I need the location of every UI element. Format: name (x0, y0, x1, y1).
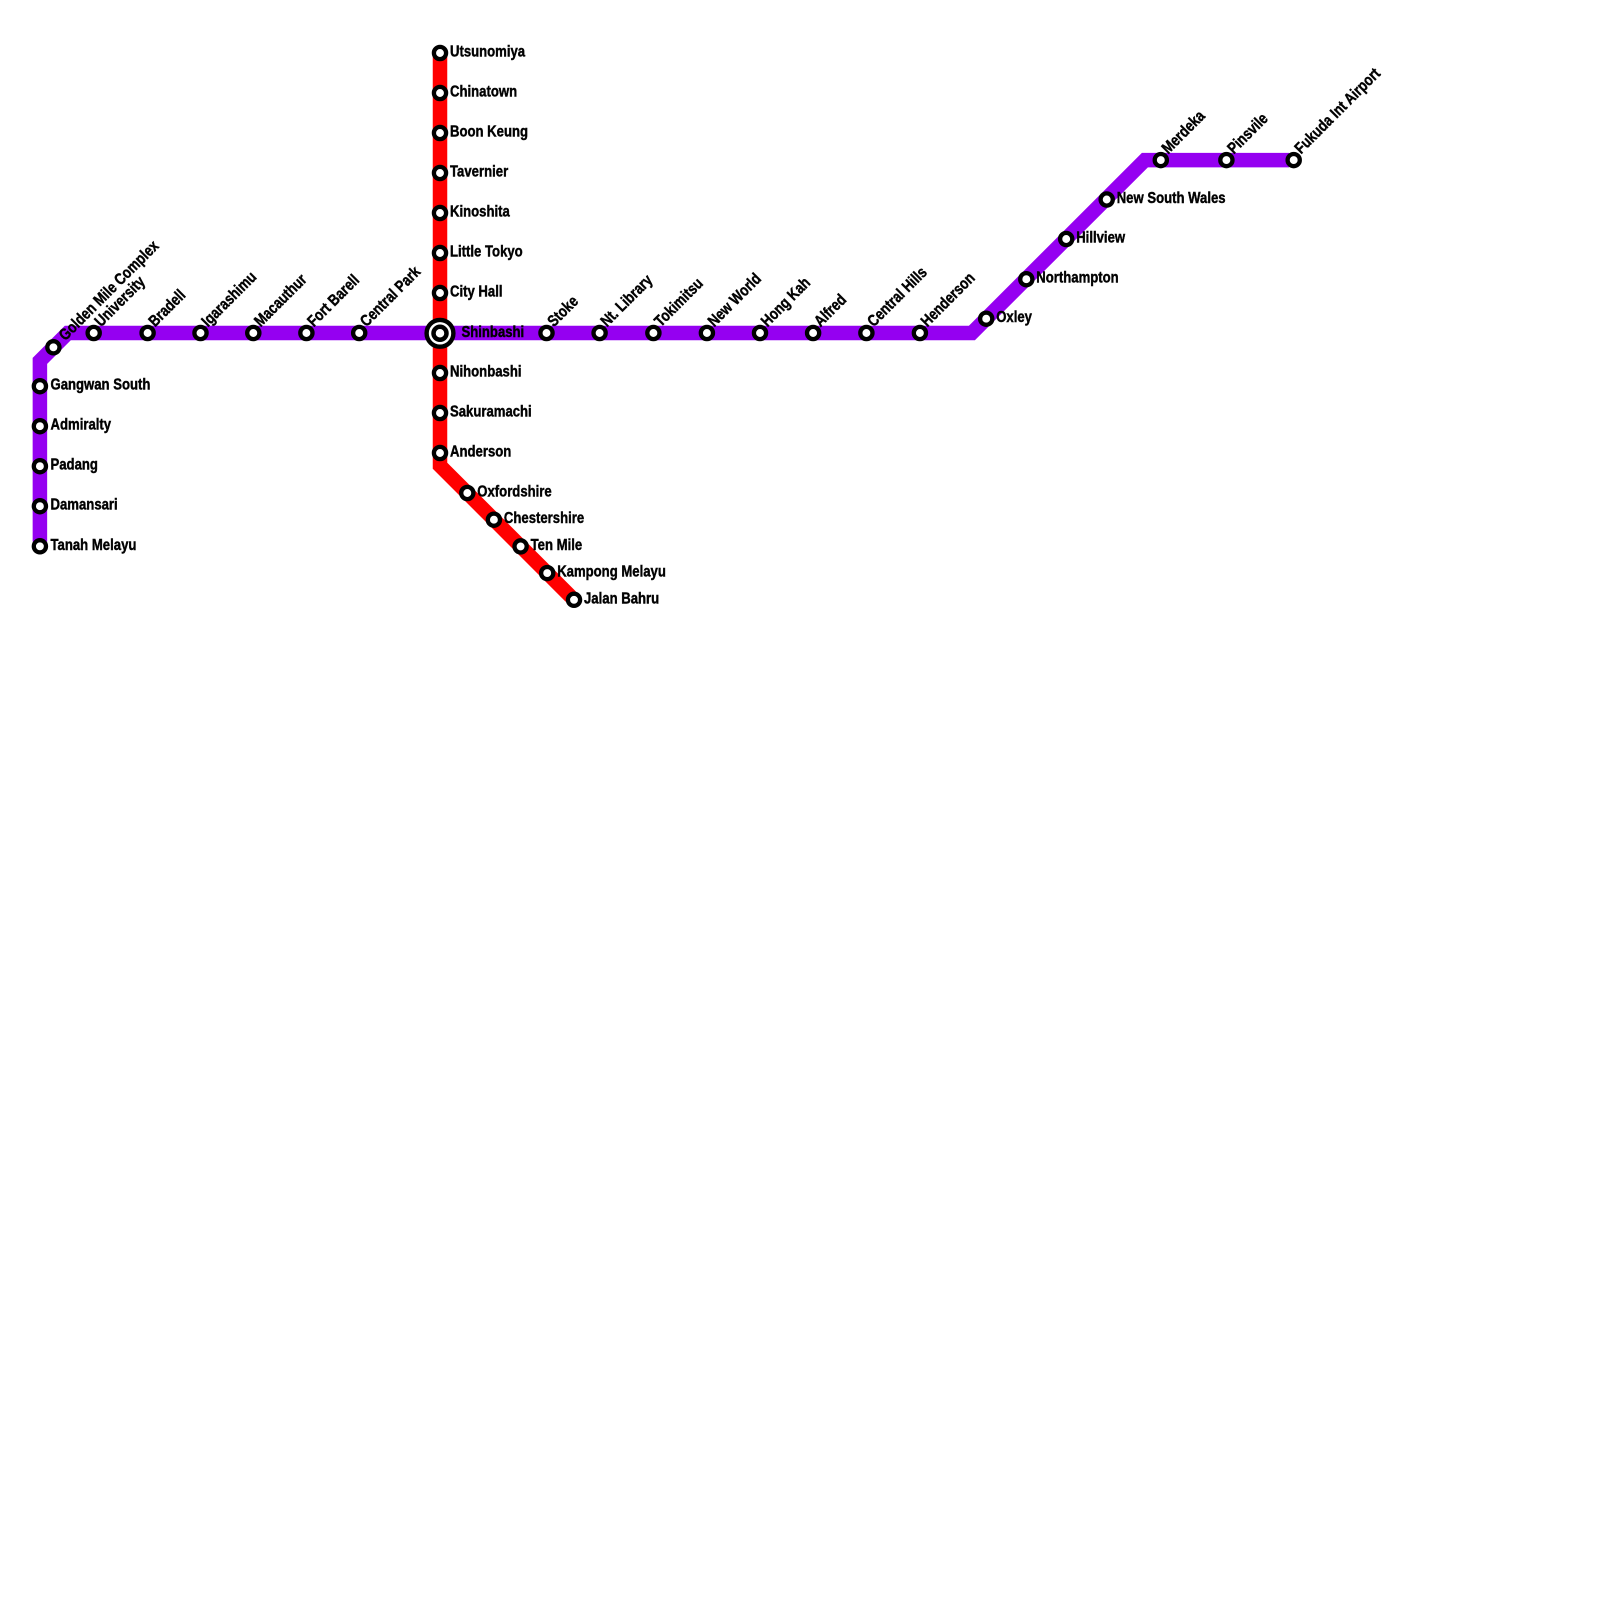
station Hillview (1060, 233, 1072, 245)
svg-text:Oxfordshire: Oxfordshire (477, 484, 551, 501)
svg-text:Anderson: Anderson (450, 444, 511, 461)
station Anderson (434, 447, 446, 459)
svg-text:Utsunomiya: Utsunomiya (450, 44, 525, 61)
svg-text:Hillview: Hillview (1076, 230, 1125, 247)
station Sakuramachi (434, 407, 446, 419)
station Henderson (914, 327, 926, 339)
red line (440, 53, 571, 597)
svg-text:Shinbashi: Shinbashi (462, 324, 525, 341)
station Kinoshita (434, 207, 446, 219)
station Gangwan South (34, 380, 46, 392)
svg-text:Chestershire: Chestershire (504, 510, 584, 527)
svg-text:Boon Keung: Boon Keung (450, 124, 528, 141)
station New South Wales (1101, 193, 1113, 205)
station Alfred (807, 327, 819, 339)
interchange Shinbashi (427, 320, 454, 347)
svg-text:Ten Mile: Ten Mile (531, 537, 583, 554)
station Boon Keung (434, 127, 446, 139)
station Padang (34, 460, 46, 472)
station Little Tokyo (434, 247, 446, 259)
svg-text:Gangwan South: Gangwan South (51, 377, 151, 394)
station Igarashimu (194, 327, 206, 339)
svg-text:Kampong Melayu: Kampong Melayu (557, 564, 666, 581)
svg-text:Tavernier: Tavernier (450, 164, 508, 181)
svg-text:New South Wales: New South Wales (1117, 190, 1226, 207)
svg-text:Oxley: Oxley (996, 309, 1032, 326)
svg-text:Nihonbashi: Nihonbashi (450, 364, 522, 381)
svg-text:Padang: Padang (51, 457, 98, 474)
station Tanah Melayu (34, 540, 46, 552)
station Chestershire (488, 514, 500, 526)
station New World (701, 327, 713, 339)
station University (88, 327, 100, 339)
station Utsunomiya (434, 47, 446, 59)
station Chinatown (434, 87, 446, 99)
svg-text:Chinatown: Chinatown (450, 84, 517, 101)
svg-text:Tanah Melayu: Tanah Melayu (51, 537, 137, 554)
station City Hall (434, 287, 446, 299)
station Northampton (1020, 273, 1032, 285)
station Hong Kah (754, 327, 766, 339)
station Central Hills (860, 327, 872, 339)
station Tavernier (434, 167, 446, 179)
station Bradell (142, 327, 154, 339)
station Central Park (353, 327, 365, 339)
svg-text:Northampton: Northampton (1036, 270, 1118, 287)
svg-text:Little Tokyo: Little Tokyo (450, 244, 523, 261)
station Oxley (980, 313, 992, 325)
svg-text:Kinoshita: Kinoshita (450, 204, 510, 221)
purple line (40, 160, 1289, 541)
station Golden Mile Complex (47, 341, 59, 353)
station Damansari (34, 500, 46, 512)
station Fort Barell (300, 327, 312, 339)
station Merdeka (1155, 154, 1167, 166)
svg-text:Sakuramachi: Sakuramachi (450, 404, 532, 421)
station Fukuda Int Airport (1288, 154, 1300, 166)
svg-text:Damansari: Damansari (51, 497, 118, 514)
station Nt. Library (594, 327, 606, 339)
station Ten Mile (515, 540, 527, 552)
svg-text:Admiralty: Admiralty (51, 417, 112, 434)
station Jalan Bahru (568, 594, 580, 606)
station Pinsvile (1220, 154, 1232, 166)
svg-text:City Hall: City Hall (450, 284, 503, 301)
station Stoke (540, 327, 552, 339)
station Oxfordshire (461, 487, 473, 499)
svg-text:Jalan Bahru: Jalan Bahru (584, 590, 659, 607)
station Nihonbashi (434, 367, 446, 379)
station Kampong Melayu (541, 567, 553, 579)
station Macauthur (247, 327, 259, 339)
station Tokimitsu (647, 327, 659, 339)
station Admiralty (34, 420, 46, 432)
